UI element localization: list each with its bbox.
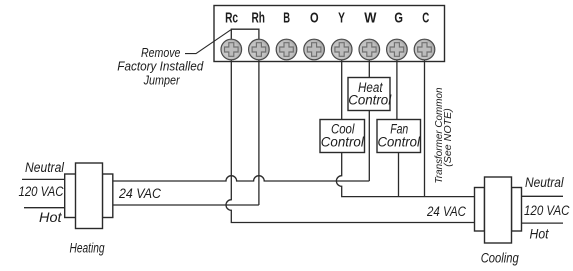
terminal screw W (359, 39, 380, 60)
svg-text:24 VAC: 24 VAC (426, 204, 466, 219)
wire: Y to cool control (341, 56, 343, 120)
svg-text:Factory Installed: Factory Installed (117, 58, 204, 73)
terminal screw Y (331, 39, 352, 60)
label: Remove Factory Installed Jumper (117, 45, 204, 88)
factory jumper Rc-Rh (231, 29, 259, 40)
wire: Rc down, hop over 24VAC return, to cooling transformer (226, 56, 474, 223)
svg-text:W: W (364, 9, 377, 26)
svg-text:120 VAC: 120 VAC (19, 184, 64, 199)
svg-text:120 VAC: 120 VAC (524, 203, 570, 218)
terminal screw C (414, 39, 435, 60)
wire: 24VAC return (heating secondary bottom) to Rh (113, 204, 259, 206)
wire: neutral into heating transformer (22, 178, 65, 180)
svg-text:Rc: Rc (225, 9, 238, 26)
cool control box (320, 120, 365, 153)
wire: cooling transformer hot out (522, 222, 564, 224)
svg-text:Y: Y (338, 9, 345, 26)
wire: 24VAC hot (heating secondary top), hops over Rc and Rh wires, to heat control (113, 176, 370, 181)
svg-text:Hot: Hot (39, 210, 63, 225)
svg-text:Control: Control (348, 93, 392, 108)
wire: fan control down to common run (398, 153, 400, 197)
wire: hot into heating transformer (24, 207, 65, 209)
svg-text:Cooling: Cooling (481, 251, 519, 266)
svg-text:Jumper: Jumper (143, 73, 180, 88)
fan control box (377, 120, 421, 153)
svg-text:(See NOTE): (See NOTE) (443, 108, 454, 167)
svg-text:G: G (394, 9, 403, 26)
transformer T1 (Heating) core body (76, 163, 103, 229)
pointer line to jumper (185, 30, 231, 54)
transformer T2 (Cooling) core body (485, 177, 512, 243)
terminal strip box (214, 6, 445, 62)
svg-text:Heating: Heating (70, 241, 105, 256)
svg-text:Hot: Hot (530, 227, 550, 242)
transformer T2 (Cooling) right coil tab (512, 188, 522, 232)
transformer T1 (Heating) left coil tab (65, 174, 76, 218)
svg-text:Neutral: Neutral (525, 175, 564, 190)
svg-text:Control: Control (321, 135, 365, 150)
terminal screw B (276, 39, 297, 60)
wire: G to fan control (396, 56, 398, 120)
label heat control (348, 80, 392, 108)
svg-text:O: O (310, 9, 319, 26)
wire: Rh down to 24VAC return (258, 56, 260, 205)
svg-text:Control: Control (377, 135, 421, 150)
label: Transformer Common (See NOTE) (434, 87, 454, 183)
label fan control (377, 122, 421, 150)
wire: cool control down, hop over 24VAC hot, common run to cooling transformer (336, 153, 474, 197)
svg-text:Neutral: Neutral (25, 160, 65, 175)
svg-text:C: C (422, 9, 429, 26)
terminal screw Rc (221, 39, 242, 60)
terminal screw Rh (249, 39, 270, 60)
terminal screw O (304, 39, 325, 60)
transformer T1 (Heating) right coil tab (102, 174, 112, 218)
svg-text:Rh: Rh (251, 9, 265, 26)
wire: C down to transformer common (424, 56, 426, 197)
terminal screw G (387, 39, 408, 60)
heat control box (348, 78, 390, 111)
wire: heat control bottom to 24VAC hot (368, 111, 370, 182)
transformer T2 (Cooling) left coil tab (475, 188, 485, 232)
wire: W to heat control (368, 56, 370, 78)
svg-text:B: B (283, 9, 290, 26)
wire: cooling transformer neutral out (522, 195, 564, 197)
svg-text:24 VAC: 24 VAC (118, 186, 161, 201)
label cool control (321, 122, 365, 150)
